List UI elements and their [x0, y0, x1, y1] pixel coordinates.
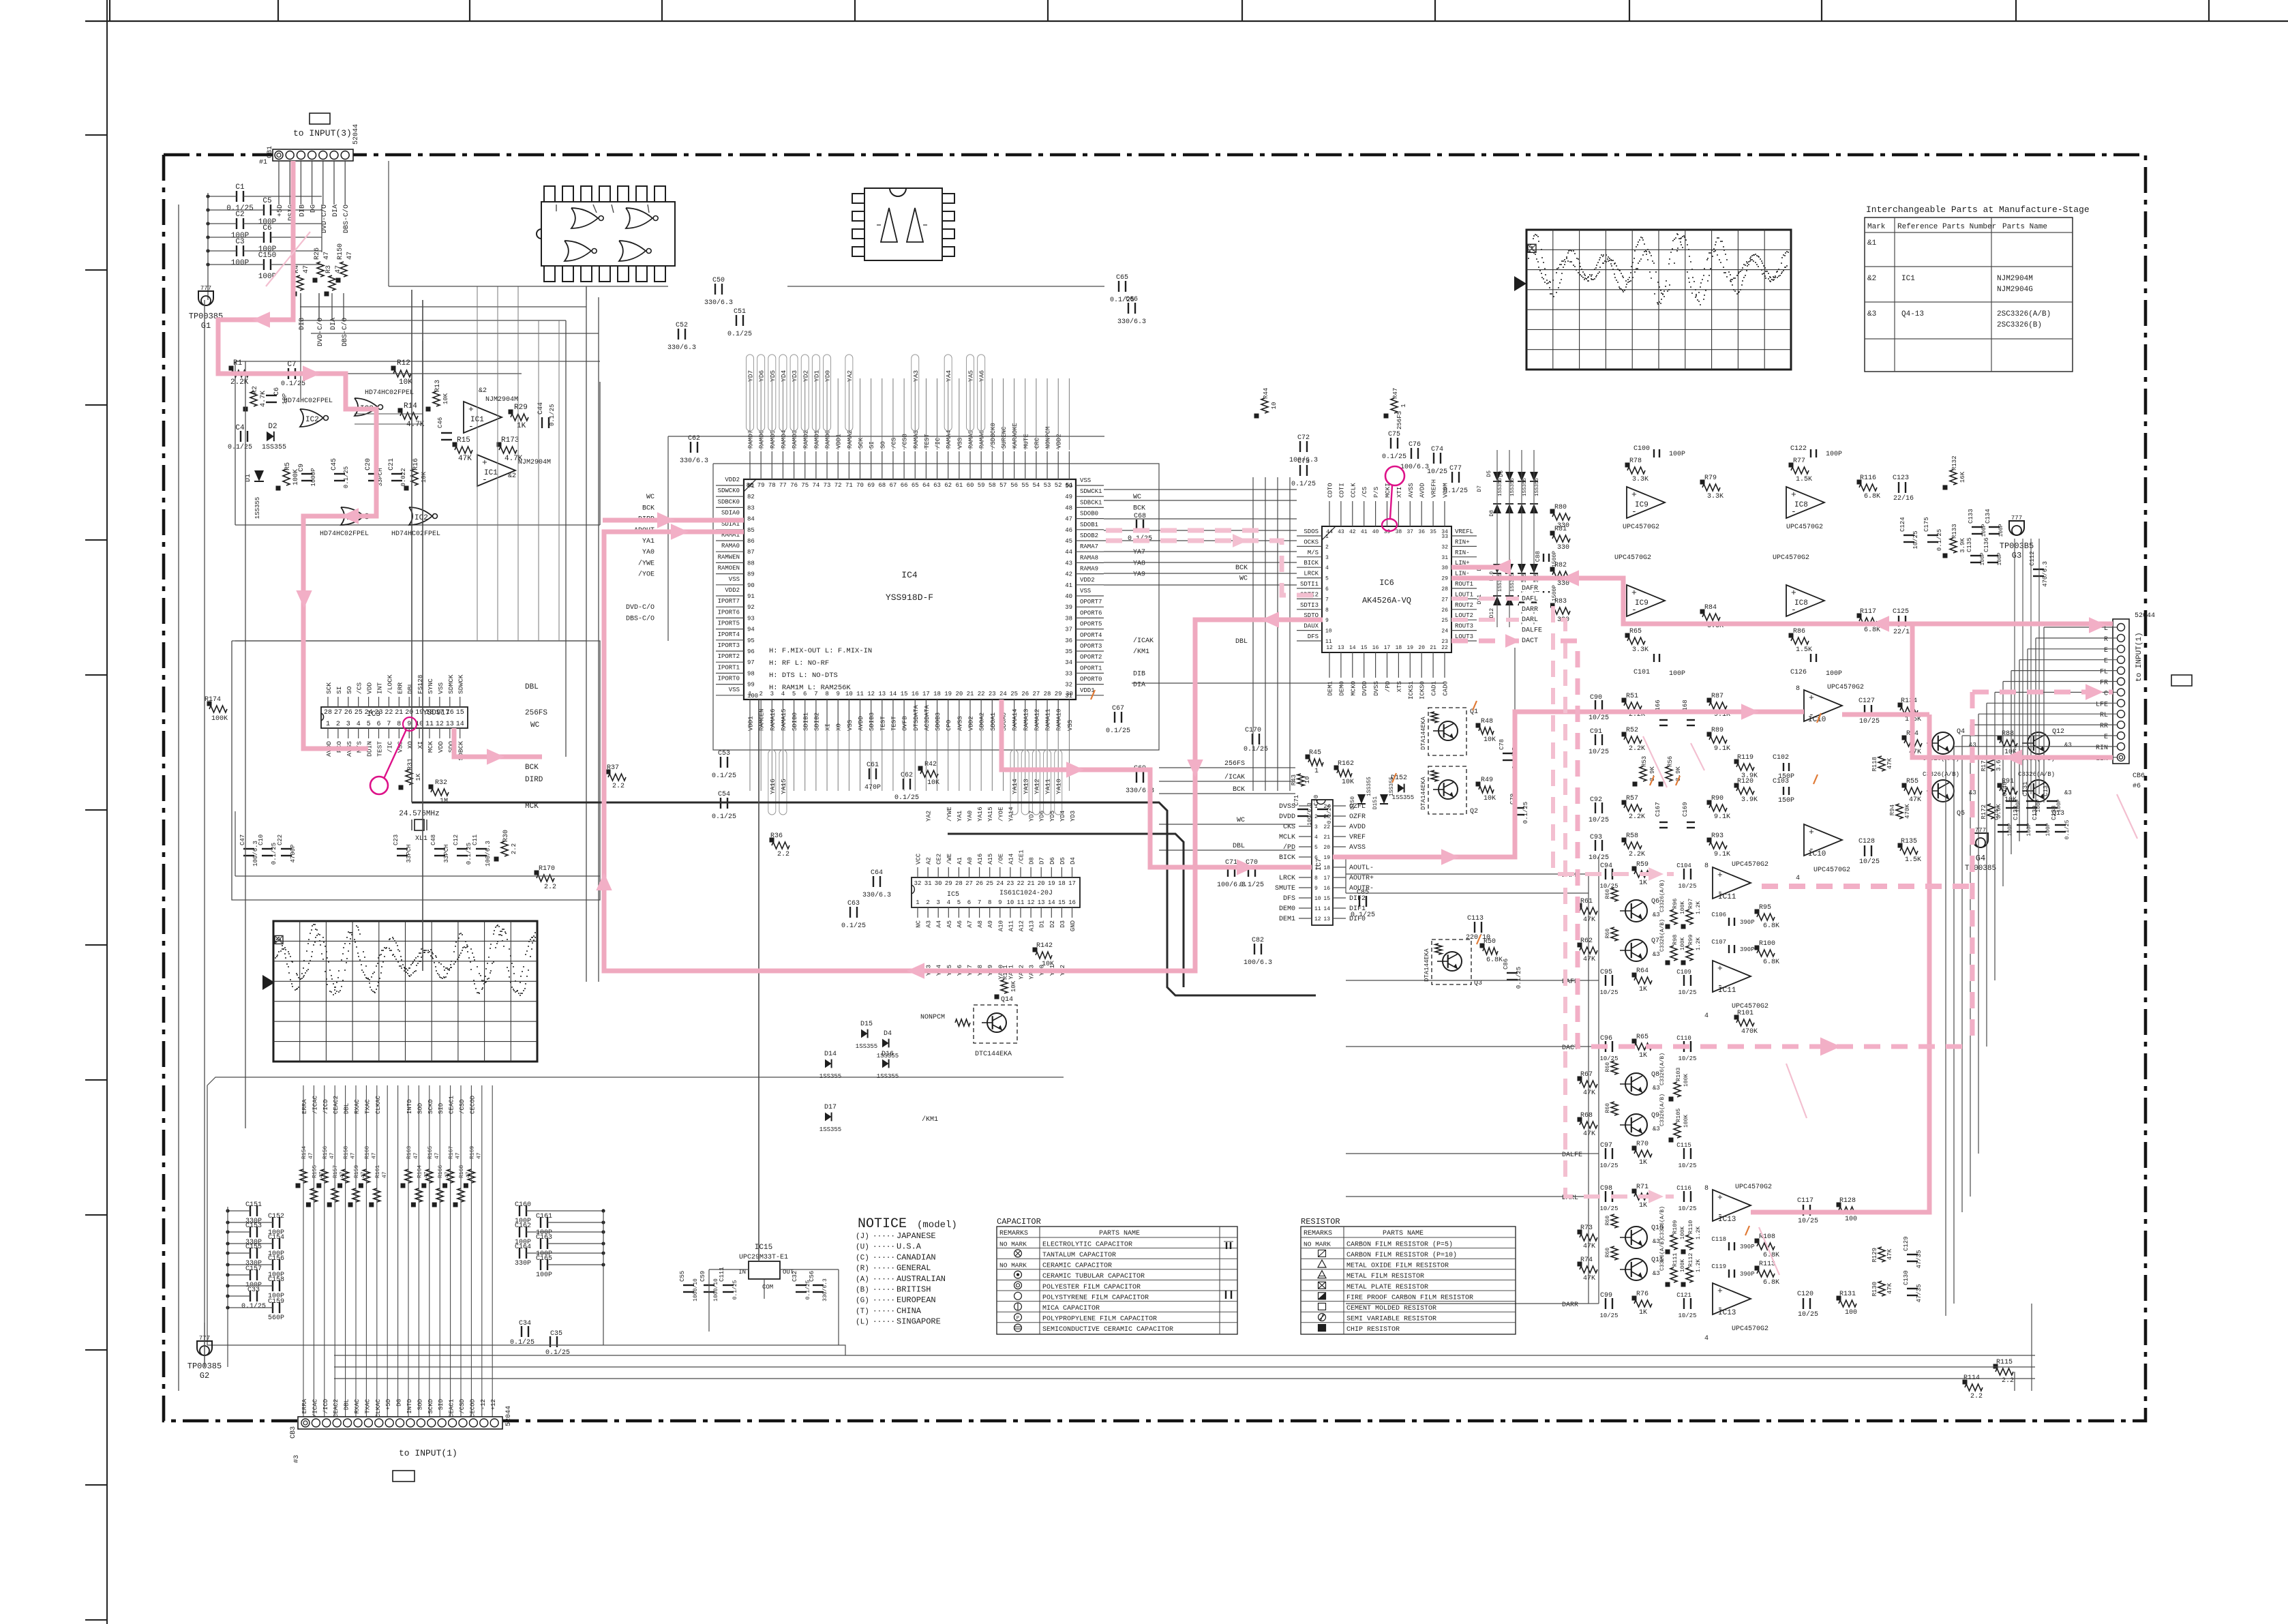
svg-text:R131: R131 [1839, 1291, 1856, 1298]
svg-text:RAMD0: RAMD0 [825, 430, 832, 449]
svg-text:D3: D3 [1059, 920, 1066, 928]
svg-text:VSS: VSS [957, 438, 963, 449]
svg-text:2SC3326(A/B): 2SC3326(A/B) [1997, 310, 2051, 318]
svg-text:C3: C3 [235, 238, 244, 246]
svg-text:31: 31 [924, 880, 932, 887]
svg-text:#1: #1 [259, 159, 267, 166]
svg-text:470K: 470K [1904, 804, 1911, 819]
svg-text:R112: R112 [1687, 1253, 1694, 1267]
svg-text:DVD-C/O: DVD-C/O [626, 603, 654, 612]
svg-text:10K: 10K [1042, 961, 1054, 968]
svg-text:44: 44 [1065, 549, 1072, 556]
svg-text:C3326(A/B): C3326(A/B) [1659, 1206, 1666, 1239]
svg-text:RAMA9: RAMA9 [1080, 566, 1098, 573]
svg-text:C95: C95 [1600, 969, 1612, 976]
svg-text:R116: R116 [1860, 475, 1876, 482]
svg-text:C67: C67 [1112, 705, 1124, 712]
svg-text:&1: &1 [1867, 239, 1877, 247]
svg-text:97: 97 [747, 659, 755, 666]
svg-text:3.9K: 3.9K [1959, 538, 1966, 553]
svg-text:Q3: Q3 [1474, 980, 1482, 987]
CB1 pin signal labels [277, 161, 350, 233]
svg-text:Q6: Q6 [1651, 898, 1659, 905]
svg-text:R13: R13 [434, 380, 442, 392]
svg-text:DACT: DACT [1522, 637, 1538, 645]
svg-text:C3326(A/B): C3326(A/B) [1659, 879, 1666, 912]
svg-text:D6: D6 [1049, 857, 1056, 864]
test point G4 [1965, 827, 1996, 873]
svg-text:CB6: CB6 [2133, 772, 2145, 780]
svg-text:RAMA7: RAMA7 [1080, 543, 1098, 550]
svg-text:0.1/25: 0.1/25 [1936, 529, 1943, 551]
svg-text:SO: SO [346, 686, 353, 694]
svg-text:ERRA: ERRA [301, 1398, 308, 1413]
svg-text:AVSS: AVSS [1349, 844, 1366, 852]
svg-text:1: 1 [326, 721, 330, 728]
svg-text:R165: R165 [427, 1146, 434, 1159]
svg-text:XTI: XTI [1396, 487, 1403, 498]
svg-text:C123: C123 [1893, 475, 1909, 482]
svg-text:HD74HC02FPEL: HD74HC02FPEL [284, 397, 333, 405]
svg-text:10K: 10K [399, 378, 412, 387]
svg-text:R65: R65 [1629, 628, 1642, 635]
svg-text:VDD1: VDD1 [1080, 687, 1095, 694]
svg-text:10/25: 10/25 [1678, 1205, 1696, 1212]
svg-text:470P: 470P [864, 784, 881, 792]
svg-text:SMUTE: SMUTE [1275, 885, 1295, 892]
svg-text:10K: 10K [421, 471, 427, 483]
svg-text:10: 10 [1325, 629, 1332, 635]
svg-text:4.7K: 4.7K [260, 391, 267, 407]
svg-text:SI: SI [335, 687, 343, 694]
svg-text:GENERAL: GENERAL [897, 1263, 931, 1273]
svg-text:36: 36 [1065, 637, 1072, 644]
svg-text:R110: R110 [1687, 1220, 1694, 1234]
svg-text:0.1/25: 0.1/25 [712, 813, 736, 821]
svg-text:R57: R57 [1626, 795, 1638, 802]
svg-text:7: 7 [1314, 865, 1318, 871]
svg-text:R36: R36 [770, 832, 783, 840]
svg-text:CHIP RESISTOR: CHIP RESISTOR [1346, 1326, 1400, 1334]
svg-text:100: 100 [1845, 1216, 1857, 1223]
IC10 low-pass filter cluster Q4 Q5 Q12 Q13 [1589, 684, 2072, 882]
svg-text:MCLK: MCLK [1279, 834, 1295, 841]
svg-text:15: 15 [456, 709, 464, 717]
svg-text:-12: -12 [480, 1399, 487, 1410]
svg-text:YD7: YD7 [747, 370, 755, 382]
svg-text:EUROPEAN: EUROPEAN [897, 1295, 936, 1305]
svg-text:10K: 10K [927, 779, 939, 787]
svg-text:10/25: 10/25 [1678, 1162, 1696, 1169]
svg-text:YA9: YA9 [1133, 571, 1145, 579]
svg-text:C53: C53 [718, 750, 730, 757]
svg-text:UPC4570G2: UPC4570G2 [1827, 684, 1864, 691]
svg-text:C12: C12 [453, 834, 460, 845]
connector CB3 to INPUT(1) [290, 1406, 513, 1463]
svg-text:C66: C66 [1126, 296, 1138, 303]
svg-text:BCK: BCK [1233, 786, 1245, 794]
svg-text:R52: R52 [1626, 727, 1638, 734]
svg-text:IC8: IC8 [1794, 501, 1808, 509]
svg-text:SCKD: SCKD [427, 1399, 434, 1414]
svg-text:C157: C157 [245, 1265, 262, 1273]
svg-text:6: 6 [1325, 586, 1329, 592]
svg-text:28: 28 [1044, 691, 1051, 697]
svg-text:10/25: 10/25 [1589, 714, 1609, 722]
svg-text:C4: C4 [235, 424, 245, 432]
svg-text:C72: C72 [1297, 434, 1310, 442]
svg-text:C162: C162 [515, 1222, 531, 1230]
svg-text:11: 11 [856, 691, 864, 697]
svg-text:C96: C96 [1600, 1035, 1612, 1042]
svg-text:C21: C21 [388, 458, 395, 470]
IC2 quad NOR package top view [537, 186, 675, 282]
svg-text:OPORT0: OPORT0 [1080, 676, 1102, 683]
svg-text:C5: C5 [262, 197, 271, 205]
svg-text:28: 28 [955, 880, 963, 887]
svg-text:DIA: DIA [330, 318, 337, 330]
svg-text:54: 54 [1032, 482, 1040, 489]
svg-text:2.2K: 2.2K [230, 378, 249, 387]
svg-text:1SS355: 1SS355 [1510, 477, 1516, 496]
svg-text:93: 93 [747, 615, 755, 622]
svg-text:C56: C56 [809, 1271, 815, 1282]
svg-text:13: 13 [1338, 645, 1344, 651]
svg-text:R73: R73 [1580, 1224, 1593, 1232]
svg-text:10/25: 10/25 [1589, 816, 1609, 824]
svg-text:Q4-13: Q4-13 [1901, 310, 1924, 318]
svg-text:C133: C133 [1968, 509, 1974, 524]
svg-text:REMARKS: REMARKS [999, 1230, 1028, 1237]
svg-text:CANADIAN: CANADIAN [897, 1252, 936, 1262]
svg-text:SO: SO [879, 441, 886, 449]
svg-text:UPC4570G2: UPC4570G2 [1786, 524, 1823, 531]
svg-text:NONPCM: NONPCM [1045, 427, 1052, 449]
svg-text:6: 6 [803, 691, 807, 697]
svg-text:DAUX: DAUX [1304, 623, 1319, 630]
svg-text:C132: C132 [2013, 805, 2019, 820]
svg-text:CLKAC: CLKAC [375, 1095, 382, 1114]
svg-text:R117: R117 [1860, 608, 1876, 616]
svg-text:C34: C34 [519, 1320, 531, 1327]
svg-text:6.8K: 6.8K [1864, 493, 1880, 500]
svg-text:1K: 1K [1639, 1159, 1647, 1167]
svg-text:10/25: 10/25 [1859, 717, 1880, 725]
svg-text:DVD-C/O: DVD-C/O [316, 318, 325, 346]
svg-text:4700P: 4700P [290, 844, 297, 862]
svg-text:#3: #3 [293, 1455, 301, 1463]
svg-text:C6: C6 [273, 387, 281, 395]
svg-text:100K: 100K [1683, 1115, 1689, 1128]
svg-text:R135: R135 [1901, 838, 1917, 845]
svg-text:6.8K: 6.8K [1763, 959, 1779, 966]
svg-text:R65: R65 [1636, 1034, 1649, 1041]
svg-text:67: 67 [890, 482, 897, 489]
svg-text:20: 20 [1323, 845, 1330, 851]
svg-text:DEM1: DEM1 [1279, 916, 1295, 923]
svg-text:SDBCK1: SDBCK1 [1080, 499, 1102, 506]
svg-text:47K: 47K [1909, 796, 1921, 804]
svg-text:15: 15 [901, 691, 908, 697]
svg-text:R130: R130 [1871, 1282, 1878, 1297]
svg-text:C99: C99 [1600, 1292, 1612, 1299]
svg-text:ERRA: ERRA [301, 1099, 308, 1114]
svg-text:8: 8 [1704, 862, 1709, 870]
svg-text:1SS355: 1SS355 [1522, 477, 1528, 496]
svg-text:C78: C78 [1499, 739, 1505, 750]
svg-text:23: 23 [1441, 639, 1448, 645]
svg-text:10K: 10K [1484, 736, 1496, 744]
caps C131 C132 C137-C141 [1993, 539, 2071, 839]
svg-text:YD2: YD2 [802, 370, 809, 382]
analog front-end cluster IC1 IC2 R1 R2 C4-C46 [228, 341, 600, 538]
svg-text:10K: 10K [1342, 779, 1354, 786]
svg-text:D7: D7 [1039, 857, 1046, 864]
svg-text:C3326(A/B): C3326(A/B) [2018, 771, 2055, 778]
svg-text:R158: R158 [344, 1146, 350, 1159]
svg-text:256FS: 256FS [525, 709, 547, 717]
svg-text:Interchangeable Parts at Manuf: Interchangeable Parts at Manufacture-Sta… [1866, 205, 2090, 215]
svg-text:YA11: YA11 [1044, 779, 1052, 794]
svg-text:RAMA3: RAMA3 [913, 430, 920, 449]
svg-text:R55: R55 [1906, 778, 1918, 785]
svg-text:0.1/25: 0.1/25 [343, 466, 350, 488]
svg-text:390P: 390P [1740, 1244, 1755, 1250]
svg-text:C161: C161 [536, 1213, 552, 1220]
svg-text:1K: 1K [1639, 1202, 1647, 1209]
svg-text:DBS-C/O: DBS-C/O [342, 205, 350, 233]
svg-text:C140: C140 [2002, 781, 2008, 796]
svg-text:VSS: VSS [1080, 588, 1091, 595]
svg-text:C54: C54 [718, 791, 730, 798]
svg-text:16: 16 [912, 691, 919, 697]
svg-text:R49: R49 [1481, 777, 1493, 784]
svg-text:1SS355: 1SS355 [856, 1043, 877, 1050]
svg-text:/KM1: /KM1 [922, 1115, 938, 1124]
svg-text:17: 17 [922, 691, 930, 697]
svg-text:RESISTOR: RESISTOR [1301, 1217, 1340, 1227]
svg-text:32: 32 [914, 880, 922, 887]
svg-text:YD6: YD6 [758, 370, 766, 382]
svg-text:76: 76 [790, 482, 798, 489]
svg-text:2: 2 [759, 691, 762, 697]
svg-text:DTA144EKA: DTA144EKA [1420, 717, 1427, 750]
svg-text:C98: C98 [1600, 1185, 1612, 1192]
svg-text:100/6.3: 100/6.3 [1307, 802, 1313, 826]
svg-text:H: DTS L: NO-DTS: H: DTS L: NO-DTS [769, 672, 838, 680]
svg-text:47: 47 [303, 265, 310, 273]
svg-text:(G): (G) [856, 1297, 869, 1305]
svg-text:73: 73 [824, 482, 831, 489]
svg-text:(T): (T) [856, 1308, 869, 1316]
svg-text:47K: 47K [1583, 1275, 1595, 1282]
svg-text:10/25: 10/25 [1678, 1312, 1696, 1319]
svg-text:R115: R115 [1996, 1359, 2013, 1366]
svg-text:YD6: YD6 [1039, 811, 1046, 822]
svg-text:·····: ····· [873, 1308, 895, 1316]
svg-text:47: 47 [308, 1152, 314, 1159]
svg-text:NJM2904G: NJM2904G [1997, 286, 2033, 294]
svg-text:IPORT1: IPORT1 [718, 664, 740, 671]
svg-text:0.1/25: 0.1/25 [1106, 727, 1130, 735]
svg-text:IPORT7: IPORT7 [718, 598, 740, 605]
svg-text:24: 24 [996, 880, 1004, 887]
svg-text:C92: C92 [1590, 796, 1602, 804]
svg-text:C91: C91 [1590, 728, 1602, 736]
svg-text:RAMD4: RAMD4 [781, 430, 787, 449]
svg-text:·····: ····· [873, 1233, 895, 1241]
svg-text:DFS: DFS [1283, 895, 1295, 903]
svg-text:57: 57 [999, 482, 1007, 489]
svg-text:33: 33 [1441, 534, 1448, 540]
svg-text:CHINA: CHINA [897, 1306, 922, 1316]
svg-text:C3326(A/B): C3326(A/B) [1659, 1238, 1666, 1271]
svg-text:MICA CAPACITOR: MICA CAPACITOR [1042, 1305, 1100, 1312]
svg-text:87: 87 [747, 549, 755, 556]
svg-text:RR: RR [2100, 723, 2108, 730]
svg-text:C163: C163 [536, 1234, 552, 1242]
svg-text:1500P: 1500P [1552, 551, 1558, 567]
svg-text:CCLK: CCLK [1350, 483, 1357, 498]
svg-text:8: 8 [1314, 875, 1318, 882]
svg-text:AVSS: AVSS [957, 716, 963, 731]
svg-text:A2: A2 [926, 857, 933, 864]
svg-text:R62: R62 [1580, 937, 1593, 945]
svg-text:R142: R142 [1036, 942, 1053, 950]
svg-text:R84: R84 [1704, 604, 1717, 612]
svg-text:47K: 47K [1583, 1243, 1595, 1250]
svg-text:330: 330 [1557, 580, 1569, 588]
svg-text:DIRD: DIRD [525, 776, 543, 784]
svg-text:47: 47 [350, 1152, 357, 1159]
svg-text:G4: G4 [1976, 854, 1985, 863]
svg-text:YD4: YD4 [1059, 811, 1066, 822]
svg-text:C70: C70 [1313, 795, 1320, 806]
svg-text:YA8: YA8 [1133, 560, 1145, 567]
svg-text:10: 10 [1271, 402, 1278, 410]
svg-text:C9: C9 [298, 464, 305, 472]
svg-text:C127: C127 [1858, 697, 1875, 705]
svg-text:100P: 100P [1980, 552, 1986, 565]
svg-text:0.1/25: 0.1/25 [281, 380, 305, 388]
svg-text:C106: C106 [1711, 912, 1726, 918]
svg-text:POLYSTYRENE FILM CAPACITOR: POLYSTYRENE FILM CAPACITOR [1042, 1294, 1149, 1302]
svg-text:44: 44 [1326, 529, 1333, 535]
svg-text:10/25: 10/25 [1678, 1055, 1696, 1062]
svg-text:R58: R58 [1626, 832, 1638, 840]
svg-text:ERR: ERR [396, 682, 404, 694]
svg-text:SDTI3: SDTI3 [1300, 602, 1319, 609]
svg-text:74: 74 [812, 482, 819, 489]
svg-text:YA10: YA10 [1055, 779, 1063, 794]
svg-text:7: 7 [1325, 597, 1329, 603]
svg-text:·····: ····· [873, 1244, 895, 1252]
svg-text:SDMCK: SDMCK [447, 674, 455, 694]
svg-text:UPC4570G2: UPC4570G2 [1623, 524, 1659, 531]
svg-text:100P: 100P [231, 259, 250, 267]
svg-text:R44: R44 [1263, 388, 1269, 399]
svg-text:H: F.MIX-OUT L: F.MIX-IN: H: F.MIX-OUT L: F.MIX-IN [769, 647, 872, 655]
svg-text:100P: 100P [2045, 823, 2051, 836]
svg-text:23: 23 [374, 709, 382, 717]
svg-text:R150: R150 [337, 243, 344, 260]
svg-text:10/25: 10/25 [1599, 1162, 1618, 1169]
svg-text:A13: A13 [1029, 920, 1036, 931]
svg-text:78: 78 [768, 482, 776, 489]
svg-text:R60: R60 [1605, 1248, 1611, 1258]
svg-text:IPORT2: IPORT2 [718, 653, 740, 660]
svg-text:DBL: DBL [344, 1399, 350, 1410]
svg-text:A16: A16 [977, 854, 984, 864]
svg-text:E: E [2104, 658, 2108, 665]
svg-text:FR: FR [2100, 680, 2108, 687]
svg-text:15: 15 [1323, 896, 1330, 902]
svg-text:SDOB3: SDOB3 [935, 712, 942, 731]
net labels DBL 256FS WC BCK DIRD MCK [525, 683, 547, 811]
svg-text:9.1K: 9.1K [1714, 851, 1730, 858]
svg-text:48: 48 [1065, 505, 1072, 511]
svg-text:RAMA6: RAMA6 [979, 430, 986, 449]
svg-text:4: 4 [1314, 834, 1318, 841]
svg-text:/CS: /CS [356, 682, 363, 694]
svg-text:C141: C141 [1993, 805, 2000, 820]
svg-text:7: 7 [387, 721, 391, 728]
svg-text:C82: C82 [1252, 937, 1264, 944]
svg-text:8: 8 [988, 899, 991, 906]
svg-text:88: 88 [747, 560, 755, 567]
svg-text:20: 20 [955, 691, 963, 697]
svg-text:6: 6 [1314, 855, 1318, 861]
svg-text:R60: R60 [1605, 889, 1611, 899]
svg-text:C139: C139 [2032, 805, 2038, 820]
svg-text:A14: A14 [1008, 854, 1014, 864]
svg-text:BCK: BCK [642, 505, 654, 512]
svg-text:4: 4 [1325, 565, 1329, 571]
svg-text:2: 2 [336, 721, 340, 728]
svg-text:27: 27 [1441, 597, 1448, 603]
svg-text:C46: C46 [437, 417, 444, 428]
svg-text:DAFL: DAFL [1522, 595, 1538, 603]
svg-text:C130: C130 [1903, 1270, 1910, 1285]
svg-text:CERAMIC TUBULAR CAPACITOR: CERAMIC TUBULAR CAPACITOR [1042, 1273, 1145, 1280]
svg-text:+: + [1717, 963, 1723, 974]
svg-text:(U): (U) [856, 1244, 869, 1252]
svg-text:100/6.3: 100/6.3 [1400, 463, 1429, 471]
svg-text:UPC4570G2: UPC4570G2 [1773, 554, 1809, 562]
svg-text:R98: R98 [1672, 935, 1679, 945]
svg-text:330: 330 [1557, 544, 1569, 552]
svg-text:29: 29 [1441, 576, 1448, 582]
svg-text:(model): (model) [917, 1220, 957, 1231]
svg-text:IC11: IC11 [1718, 987, 1736, 995]
svg-text:95: 95 [747, 637, 755, 644]
svg-text:C75: C75 [1388, 431, 1400, 438]
svg-text:R93: R93 [1711, 832, 1723, 840]
svg-text:R113: R113 [1759, 1261, 1775, 1268]
oscillogram grid top right [1514, 230, 1791, 370]
svg-text:VSS: VSS [847, 720, 854, 731]
svg-text:100P: 100P [1997, 552, 2003, 565]
svg-text:470K: 470K [1741, 1028, 1758, 1036]
svg-text:35: 35 [1065, 648, 1072, 655]
svg-text:10: 10 [1304, 777, 1311, 784]
svg-text:R129: R129 [1871, 1248, 1878, 1263]
svg-text:24.576MHz: 24.576MHz [399, 810, 439, 818]
svg-text:TP00385: TP00385 [1965, 864, 1996, 873]
test point G3 [2000, 515, 2034, 560]
svg-text:17: 17 [1068, 880, 1076, 887]
svg-text:26: 26 [344, 709, 352, 717]
